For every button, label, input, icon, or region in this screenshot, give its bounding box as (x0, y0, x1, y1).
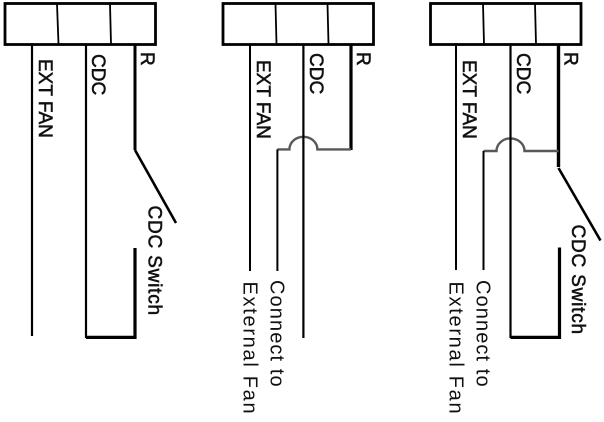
svg-text:EXT FAN: EXT FAN (252, 60, 273, 139)
wire fan lead vertical (panel 3) (483, 151, 485, 270)
wire EXT FAN terminal 3 (455, 44, 457, 270)
wire switch bottom contact U (panel 3) (511, 248, 560, 338)
wire CDC terminal 2 (302, 44, 304, 338)
wire CDC terminal 3 (509, 44, 511, 338)
svg-text:Connect to: Connect to (266, 280, 288, 388)
svg-text:R: R (560, 52, 581, 66)
svg-text:CDC: CDC (305, 53, 326, 94)
wire R terminal 1 (134, 44, 137, 150)
wire EXT FAN terminal 2 (249, 44, 251, 271)
svg-text:EXT FAN: EXT FAN (458, 60, 479, 139)
terminal block TB1 (5, 4, 156, 45)
wire fan lead vertical (panel 2) (276, 149, 278, 271)
wire CDC terminal 1 (85, 44, 87, 338)
switch blade CDC Switch (panel 1) (135, 150, 176, 223)
svg-text:CDC: CDC (512, 53, 533, 94)
wire R terminal 3 (557, 44, 560, 167)
svg-text:EXT FAN: EXT FAN (34, 59, 55, 138)
terminal block TB3 (431, 4, 582, 45)
wire EXT FAN terminal 1 (31, 44, 33, 336)
wire switch bottom contact U (panel 1) (86, 248, 135, 337)
svg-text:External Fan: External Fan (445, 282, 467, 416)
terminal block TB2 (223, 4, 374, 45)
svg-text:R: R (352, 52, 373, 66)
svg-text:Connect to: Connect to (472, 280, 494, 388)
svg-text:CDC Switch: CDC Switch (567, 225, 588, 335)
svg-text:CDC Switch: CDC Switch (144, 206, 165, 316)
svg-text:R: R (136, 52, 157, 66)
wire jumper with hop R to fan lead (panel 2) (277, 137, 351, 150)
wire jumper with hop R to fan lead (panel 3) (484, 138, 559, 151)
svg-text:CDC: CDC (87, 54, 108, 95)
svg-text:External Fan: External Fan (239, 282, 261, 416)
switch blade CDC Switch (panel 3) (559, 168, 601, 241)
wire R terminal 2 (349, 44, 352, 150)
